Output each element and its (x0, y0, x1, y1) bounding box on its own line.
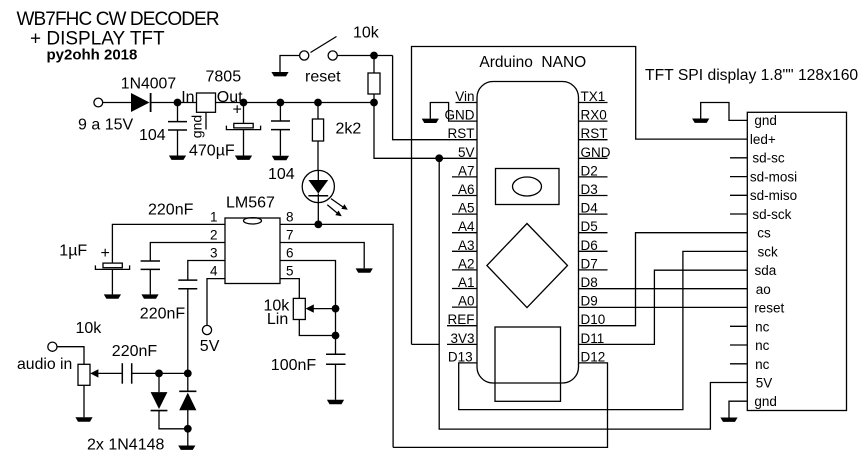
ground pin7 (356, 268, 373, 272)
svg-text:5V: 5V (756, 376, 773, 391)
reset switch terminal right (328, 51, 337, 60)
wire audio terminal to pot (57, 347, 84, 365)
crystal rect (496, 169, 560, 205)
wire pot bottom to node (299, 320, 335, 336)
svg-text:RST: RST (581, 126, 608, 141)
ground input cap (169, 156, 186, 160)
svg-text:D3: D3 (581, 182, 598, 197)
node reset 10k (370, 52, 378, 60)
wire wiper node to bottom node (335, 309, 337, 336)
pin A1 underline (452, 288, 477, 290)
svg-text:A2: A2 (458, 256, 475, 271)
ground 104 output (272, 156, 289, 160)
pin A2 underline (452, 269, 477, 271)
svg-text:+: + (101, 245, 110, 262)
LED light arrow 2 (327, 205, 342, 216)
crystal ellipse (513, 177, 542, 196)
svg-text:WB7FHC CW DECODER: WB7FHC CW DECODER (17, 9, 219, 30)
LED internal leads (317, 170, 319, 202)
svg-text:nc: nc (755, 319, 770, 334)
wire 5V loop jog (412, 343, 440, 345)
svg-text:D2: D2 (581, 163, 598, 178)
ground Arduino GND (422, 119, 439, 123)
node 2k2 top (314, 99, 322, 107)
svg-text:5V: 5V (458, 145, 475, 160)
ground TFT top (692, 119, 709, 123)
wire TFT gnd bottom hook (729, 401, 747, 417)
svg-text:audio in: audio in (17, 356, 72, 373)
svg-text:sda: sda (755, 263, 777, 278)
LED light arrow 1 (331, 199, 348, 210)
svg-text:gnd: gnd (754, 394, 777, 409)
svg-text:220nF: 220nF (112, 343, 158, 360)
wire TFT gnd top hook (701, 103, 748, 121)
pin sd-mosi stub (730, 176, 747, 178)
pin RST right underline (579, 139, 608, 141)
pin A3 underline (452, 250, 477, 252)
svg-text:gnd: gnd (754, 113, 777, 128)
wire pin4 to 5V terminal (207, 279, 225, 326)
pin D4 underline (579, 213, 608, 215)
pin A4 underline (452, 232, 477, 234)
pin Vin underline (456, 102, 477, 104)
svg-text:LM567: LM567 (226, 195, 275, 212)
svg-text:D4: D4 (581, 201, 599, 216)
pin nc1 stub (730, 325, 747, 327)
wire D12 to LM567 pin8 (393, 363, 607, 448)
svg-text:A3: A3 (458, 238, 475, 253)
wire 5V rail out (216, 102, 375, 104)
pin GND right underline (579, 157, 608, 159)
potentiometer 10k Lin (293, 298, 305, 319)
LED triangle (308, 180, 328, 194)
svg-text:nc: nc (755, 357, 770, 372)
node Arduino 5V (435, 154, 443, 162)
svg-text:10k: 10k (76, 320, 103, 337)
wire RST net (393, 56, 477, 140)
svg-text:D11: D11 (581, 331, 605, 346)
LED cathode bar (308, 195, 328, 197)
svg-text:D7: D7 (581, 256, 598, 271)
svg-text:A7: A7 (458, 163, 475, 178)
pin D7 underline (579, 269, 608, 271)
Arduino NANO board outline (477, 82, 579, 384)
svg-text:GND: GND (581, 145, 611, 160)
wire pin5 to pot top (280, 279, 299, 299)
svg-text:RST: RST (448, 126, 475, 141)
svg-text:D13: D13 (448, 349, 473, 364)
svg-text:reset: reset (305, 69, 341, 86)
svg-text:A6: A6 (458, 182, 475, 197)
wire D13 to TFT sck (459, 251, 748, 409)
svg-text:Vin: Vin (455, 89, 474, 104)
wire D10 to TFT cs (579, 233, 747, 326)
pin A6 underline (452, 195, 477, 197)
wire pin8 to D12 net (280, 224, 393, 447)
svg-text:104: 104 (139, 127, 166, 144)
svg-text:py2ohh 2018: py2ohh 2018 (47, 47, 138, 64)
terminal 5V LM567 (202, 325, 211, 334)
svg-text:TX1: TX1 (581, 89, 606, 104)
node input cap (174, 99, 182, 107)
svg-text:nc: nc (755, 338, 770, 353)
LM567 notch (244, 218, 262, 224)
wire pin3 (188, 261, 225, 281)
svg-text:gnd: gnd (189, 115, 205, 138)
diode clamp down (151, 373, 188, 428)
node 470uF (240, 99, 248, 107)
potentiometer 10k audio (78, 364, 90, 385)
wire Arduino GND hook (430, 103, 476, 122)
terminal audio in (48, 342, 57, 351)
ground 470uF (235, 156, 252, 160)
capacitor 220nF series (122, 363, 131, 384)
svg-text:D6: D6 (581, 238, 598, 253)
svg-text:5: 5 (286, 264, 294, 279)
wire LED to pin8 row (317, 203, 319, 225)
7805 gnd pin (205, 112, 207, 129)
pin sd-miso stub (730, 194, 747, 196)
IC LM567 body (225, 218, 280, 284)
pin 3V3 underline (447, 343, 477, 345)
svg-text:reset: reset (754, 301, 784, 316)
svg-text:1: 1 (210, 210, 218, 225)
audio pot wiper arrow (90, 369, 122, 377)
pin D2 underline (579, 176, 608, 178)
capacitor 100nF (326, 336, 346, 400)
ground audio pot (75, 417, 92, 421)
wire D9 to TFT reset (579, 306, 747, 308)
pin A5 underline (452, 213, 477, 215)
ground TFT bottom (720, 418, 737, 422)
svg-text:sd-mosi: sd-mosi (750, 169, 797, 184)
node clamp left (155, 370, 163, 378)
svg-text:9 a 15V: 9 a 15V (78, 117, 133, 134)
pin D3 underline (579, 195, 608, 197)
regulator U 7805 (197, 93, 216, 112)
wire pin1 to 1uF (112, 224, 225, 263)
svg-text:A0: A0 (458, 294, 475, 309)
ground reset switch (271, 72, 288, 76)
svg-text:RX0: RX0 (581, 108, 607, 123)
svg-text:sd-sc: sd-sc (752, 151, 785, 166)
TFT connector box (747, 112, 846, 410)
svg-text:5V: 5V (200, 338, 220, 355)
svg-text:220nF: 220nF (148, 201, 194, 218)
svg-text:D5: D5 (581, 219, 598, 234)
node 104 out cap (277, 99, 285, 107)
wire pin6 to wiper (280, 261, 336, 309)
USB connector (495, 327, 561, 401)
pin A7 underline (452, 176, 477, 178)
svg-text:sck: sck (758, 244, 779, 259)
svg-text:2k2: 2k2 (336, 120, 362, 137)
wire switch to RST elbow (337, 55, 392, 57)
svg-text:470µF: 470µF (189, 142, 235, 159)
capacitor 104 output (271, 103, 290, 156)
wire D11 to TFT sda (579, 270, 747, 344)
svg-text:led+: led+ (750, 132, 776, 147)
svg-text:Arduino NANO: Arduino NANO (479, 54, 586, 71)
svg-text:2: 2 (210, 228, 218, 243)
LED body (302, 170, 334, 202)
svg-text:6: 6 (286, 246, 294, 261)
svg-text:A4: A4 (458, 219, 475, 234)
pin D5 underline (579, 232, 608, 234)
pin D6 underline (579, 250, 608, 252)
node 10k bottom (370, 99, 378, 107)
wire D8 to TFT ao (579, 288, 747, 290)
pin REF underline (447, 325, 477, 327)
svg-text:cs: cs (757, 226, 771, 241)
ground 1uF (104, 294, 121, 298)
pin nc2 stub (730, 344, 747, 346)
capacitor 220nF pin3 (178, 280, 197, 373)
svg-text:104: 104 (268, 166, 295, 183)
svg-text:ao: ao (756, 282, 771, 297)
wire 5V vertical to TFT 5V (439, 158, 747, 429)
svg-text:D12: D12 (581, 349, 606, 364)
node clamp bottom (184, 425, 192, 433)
svg-text:sd-sck: sd-sck (752, 207, 791, 222)
diode D 1N4007 (131, 93, 151, 112)
pin sd-sck stub (730, 213, 747, 215)
svg-text:7: 7 (286, 228, 294, 243)
node clamp right (184, 370, 192, 378)
MCU diamond (487, 224, 568, 308)
resistor 2k2 (312, 103, 323, 171)
svg-text:In: In (181, 89, 194, 106)
svg-text:+: + (233, 102, 242, 119)
wire reset switch to ground (280, 56, 300, 73)
svg-text:8: 8 (286, 210, 294, 225)
pot wiper arrow (306, 304, 336, 312)
pin RX0 underline (579, 120, 608, 122)
svg-text:10k: 10k (353, 25, 380, 42)
svg-text:D10: D10 (581, 312, 606, 327)
wire pin2 (150, 243, 225, 262)
svg-text:4: 4 (210, 264, 218, 279)
reset switch lever (311, 37, 337, 53)
capacitor 104 input (168, 103, 187, 156)
wire pin7 to ground (280, 243, 364, 269)
wire pot bottom to ground (83, 385, 85, 417)
wire 5V rail to Arduino 5V pin (374, 103, 477, 159)
node LED pin8 (314, 221, 322, 229)
svg-text:3: 3 (210, 246, 218, 261)
pin TX1 underline (579, 102, 608, 104)
reset switch terminal left (300, 51, 309, 60)
svg-text:sd-miso: sd-miso (750, 188, 797, 203)
svg-text:7805: 7805 (206, 69, 242, 86)
pin nc3 stub (730, 363, 747, 365)
node wiper (332, 305, 340, 313)
wire 5V loop to TFT led+ (412, 47, 748, 345)
node pot bottom (332, 332, 340, 340)
wire diode to 7805 In (151, 102, 197, 104)
svg-text:100nF: 100nF (271, 357, 317, 374)
pin A0 underline (452, 306, 477, 308)
svg-text:GND: GND (445, 108, 475, 123)
svg-text:TFT SPI display 1.8"" 128x160: TFT SPI display 1.8"" 128x160 (645, 67, 858, 84)
capacitor 220nF pin2 (141, 261, 160, 294)
svg-text:REF: REF (448, 312, 475, 327)
svg-text:D8: D8 (581, 275, 598, 290)
svg-text:Lin: Lin (267, 311, 288, 328)
svg-text:A1: A1 (458, 275, 475, 290)
svg-text:1N4007: 1N4007 (121, 76, 176, 93)
capacitor 1uF electrolytic (95, 263, 129, 294)
ground clamp (178, 446, 195, 450)
capacitor 470uF electrolytic (226, 103, 260, 156)
svg-text:2x 1N4148: 2x 1N4148 (87, 436, 164, 453)
svg-text:1µF: 1µF (59, 242, 87, 259)
resistor 10k pullup (368, 56, 380, 103)
wire input to diode (103, 102, 131, 104)
svg-text:220nF: 220nF (140, 305, 186, 322)
svg-text:3V3: 3V3 (450, 331, 474, 346)
pin sd-sc stub (730, 157, 747, 159)
diode clamp up (179, 373, 196, 445)
svg-text:D9: D9 (581, 294, 598, 309)
ground 100nF (327, 400, 344, 404)
ground 220nF pin2 (141, 294, 158, 298)
input terminal 9-15V (94, 98, 103, 107)
svg-text:A5: A5 (458, 201, 475, 216)
wire series cap to clamp (132, 372, 188, 374)
